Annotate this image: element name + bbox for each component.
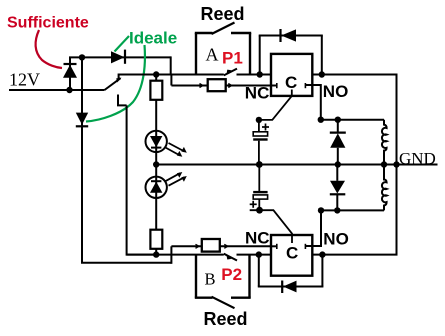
wire resistor row right to relay K1 xyxy=(226,85,271,87)
wire NO pin (top relay) to coil rail xyxy=(312,85,321,120)
resistor R4 (series, bottom) xyxy=(202,239,220,252)
switch SW1 lower throw contact (L hook) xyxy=(118,95,127,106)
svg-text:Reed: Reed xyxy=(201,4,245,24)
inductor L1 (top relay coil) xyxy=(382,120,387,165)
reed switch S2 blade arrow xyxy=(227,255,232,259)
diode D2 (Ideale, horizontal on top rail) cathode right xyxy=(111,50,125,64)
relay K2 C pin wire from C2 xyxy=(250,210,292,243)
relay K1 box xyxy=(271,54,312,96)
resistor R1 (top LED resistor) xyxy=(150,75,162,131)
switch SW1 blade arrow tip xyxy=(116,78,121,83)
wire resistor row (y=85.5) xyxy=(171,85,207,87)
wire top rail (y=57) xyxy=(69,56,171,58)
wire bottom resistor row right to relay K2 xyxy=(220,245,271,247)
reed switch S1 blade arrow xyxy=(227,70,232,74)
svg-text:C: C xyxy=(286,244,298,263)
switch SW1 blade from 12V wire xyxy=(105,78,121,90)
junction dot flyback left (bottom) xyxy=(256,251,262,257)
resistor R2 (series, horizontal) xyxy=(208,79,226,91)
relay K2 box xyxy=(271,235,312,276)
svg-text:12V: 12V xyxy=(9,70,40,90)
junction dot GND/right rail xyxy=(393,161,399,167)
relay K2 NC internal pin stub xyxy=(271,244,277,249)
relay K2 NO internal pin stub xyxy=(305,244,312,249)
junction dot GND/D5 D6 column xyxy=(335,161,341,167)
svg-text:NO: NO xyxy=(323,230,349,249)
diode D5 (top right, cathode up) xyxy=(330,120,346,165)
wire top coil rail (y=119.7) xyxy=(321,119,384,121)
wire D2 column (x=82) down left side xyxy=(82,57,171,262)
reed switch S2 blade on bottom row xyxy=(224,254,237,261)
relay K1 NC internal pin stub xyxy=(271,83,277,88)
capacitor C1 (electrolytic, top) xyxy=(253,120,269,165)
junction dot NO rail left (bottom) xyxy=(318,207,324,213)
junction dot GND/LED column xyxy=(153,161,159,167)
wire arrow on resistor row left xyxy=(200,84,203,88)
resistor R3 (bottom LED resistor) xyxy=(150,230,162,255)
junction dot flyback right (bottom) xyxy=(319,251,325,257)
svg-text:NC: NC xyxy=(245,229,270,248)
step connector to resistor row xyxy=(170,74,172,86)
svg-text:Ideale: Ideale xyxy=(129,29,177,48)
green pointer line to D2 xyxy=(115,36,130,52)
relay K1 C pin to capacitor C1 xyxy=(259,90,292,120)
wire GND rail (y=164.5) xyxy=(156,164,437,166)
junction dot main row / R1 column xyxy=(153,71,159,77)
junction dot 12V/D1 xyxy=(66,87,72,93)
wire main bottom row (y=254.6) xyxy=(127,254,224,256)
wire 12V supply horizontal xyxy=(9,89,105,91)
svg-text:P1: P1 xyxy=(222,49,243,68)
junction dot bottom row / R3 xyxy=(153,251,159,257)
wire L-rail (x=126.6) down to bottom row xyxy=(127,105,156,254)
svg-text:Reed: Reed xyxy=(204,309,248,329)
capacitor C2 (electrolytic, bottom) xyxy=(250,165,268,211)
relay K1 NO internal pin stub xyxy=(305,83,312,88)
flyback diode D4 loop (top relay) xyxy=(259,29,323,75)
LED1 emission arrows xyxy=(165,143,187,157)
step connector bottom (x=171.4) xyxy=(170,246,172,263)
wire main top row right part xyxy=(237,74,272,76)
reed switch S1 (Reed A) enclosure xyxy=(195,23,251,75)
junction dot NO rail left (top) xyxy=(318,117,324,123)
junction dot GND/L1 L2 column xyxy=(381,161,387,167)
wire right rail (x=396.5) xyxy=(312,75,396,255)
diode D6 (bottom right, cathode down) xyxy=(330,165,346,211)
junction dot bottom rail / D6 xyxy=(334,207,340,213)
red pointer curve from Sufficiente to D1 xyxy=(36,30,62,68)
junction dot top rail / D2 column xyxy=(79,54,85,60)
svg-text:NC: NC xyxy=(245,84,270,103)
LED2 (bottom, cathode up) xyxy=(146,165,167,230)
wire arrow on resistor row right xyxy=(228,84,231,88)
diode D1 (Sufficiente) vertical, cathode up xyxy=(63,58,77,91)
reed switch S1 blade on main row xyxy=(224,69,237,76)
junction dot C2 bottom xyxy=(256,207,263,214)
wire bottom coil rail (y=210.4) xyxy=(321,209,384,211)
svg-text:GND: GND xyxy=(399,149,436,168)
LED2 emission arrows xyxy=(165,172,187,186)
junction dot top rail / D5 xyxy=(335,117,341,123)
wire arrow on bottom resistor row left xyxy=(196,244,199,248)
junction dot flyback left (top) xyxy=(257,71,263,77)
wire main bottom row right part xyxy=(237,254,272,256)
relay K2 C internal pin stub xyxy=(291,235,293,243)
wire arrow on bottom resistor row right xyxy=(224,244,227,248)
svg-text:C: C xyxy=(285,73,297,92)
svg-text:A: A xyxy=(206,45,219,65)
svg-text:P2: P2 xyxy=(221,265,242,284)
reed switch S2 (Reed B) enclosure xyxy=(195,255,251,309)
junction dot C1 top xyxy=(256,117,262,123)
wire bottom resistor row (y=246.3) xyxy=(171,245,201,247)
inductor L2 (bottom relay coil) xyxy=(382,165,387,211)
wire main top row (y=74.5) left part with corner from top rail xyxy=(119,75,171,80)
junction dot flyback right (top) xyxy=(319,71,325,77)
svg-text:Sufficiente: Sufficiente xyxy=(7,15,89,32)
green pointer curve from Ideale to D3 xyxy=(86,45,145,122)
junction dot GND/capacitor column xyxy=(256,161,263,168)
LED1 (top, cathode down) xyxy=(146,131,167,165)
svg-text:B: B xyxy=(205,270,216,289)
flyback diode D7 loop (bottom relay) xyxy=(258,255,324,293)
diode D3 vertical on x=82 column, cathode down xyxy=(76,113,88,127)
svg-text:NO: NO xyxy=(323,82,349,101)
wire NO pin (bottom relay) to coil rail xyxy=(312,210,321,246)
